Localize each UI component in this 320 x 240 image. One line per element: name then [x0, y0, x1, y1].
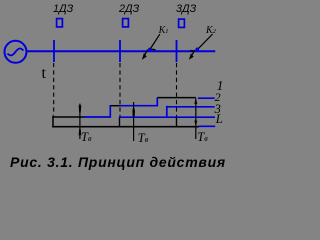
- staircase A zone2 blue segment: [120, 105, 159, 107]
- staircase A zone2 black segment: [111, 105, 121, 107]
- label Tv2: [138, 131, 148, 146]
- caption: [10, 154, 226, 170]
- dashed boundary line 3: [176, 63, 178, 117]
- label 2ДЗ: [119, 3, 139, 15]
- label t (time axis): [42, 65, 46, 83]
- time arrow T2: [132, 102, 135, 141]
- time arrow T1: [79, 104, 82, 139]
- relay box 2ДЗ: [123, 19, 129, 27]
- label 1 (right): [217, 78, 224, 94]
- staircase A zone3 blue end segment: [198, 97, 215, 99]
- time arrow T3: [194, 98, 197, 139]
- staircase B zone2 blue line: [167, 106, 215, 108]
- staircase B step (blue vertical): [166, 106, 168, 118]
- fault K1 bolt: [143, 34, 160, 57]
- staircase A zone3 black plateau: [157, 97, 196, 99]
- bus line (wire): [27, 50, 216, 52]
- label Tv3: [197, 130, 207, 145]
- bus tick 2: [119, 40, 121, 62]
- staircase B left edge: [119, 117, 121, 127]
- staircase A zone1 blue segment: [84, 116, 111, 118]
- fault K1 dot: [148, 48, 151, 51]
- relay box 3ДЗ: [179, 19, 185, 27]
- staircase A step 2 (blue vertical): [156, 98, 158, 107]
- label K1: [159, 25, 169, 36]
- bus tick 1: [53, 40, 55, 62]
- dashed boundary line 2: [119, 63, 121, 117]
- bus tick 3: [176, 40, 178, 62]
- label 3 (right): [215, 102, 221, 117]
- relay box 1ДЗ: [57, 19, 63, 27]
- generator G: [5, 41, 27, 63]
- label Tv1: [81, 130, 91, 145]
- baseline blue segment: [199, 125, 216, 127]
- label 3ДЗ: [176, 3, 196, 15]
- staircase C left edge: [176, 117, 178, 127]
- staircase B zone1 blue line: [119, 116, 215, 118]
- staircase A left edge: [52, 116, 54, 128]
- label L (right): [216, 112, 223, 127]
- label K2: [206, 25, 216, 36]
- generator sine wave: [8, 48, 24, 55]
- dashed boundary line 1: [53, 63, 55, 116]
- baseline black: [52, 126, 199, 128]
- label 1ДЗ: [53, 3, 73, 15]
- staircase A zone1 black segment: [52, 116, 84, 118]
- staircase A step 1 (blue vertical): [109, 105, 111, 117]
- label 2 (right): [215, 90, 221, 105]
- fault K2 bolt: [190, 34, 212, 58]
- fault K2 dot: [196, 48, 200, 52]
